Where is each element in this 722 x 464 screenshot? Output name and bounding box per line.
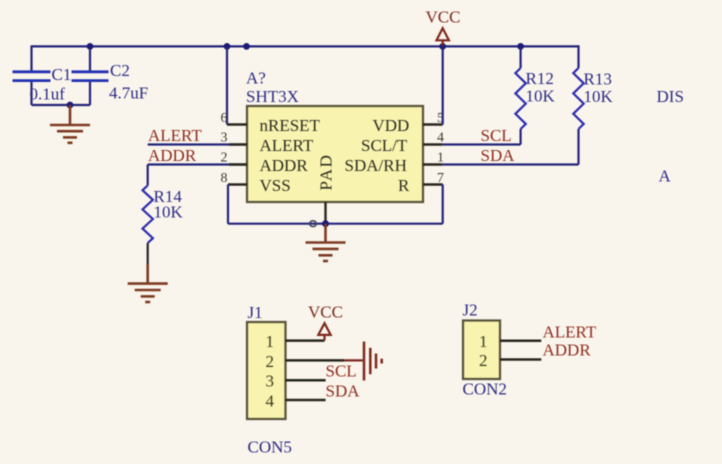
wire: rail to pin 6 [226,46,228,124]
pin name VDD [373,116,410,135]
junction dot rail/pin6 drop [224,43,231,50]
svg-text:VCC: VCC [308,303,343,322]
value 0.1uf [30,85,66,104]
pin name SCL/T [361,136,408,155]
pin 3 stub (ALERT) [229,143,247,145]
junction dot rail/VCC [439,43,446,50]
ground (below IC) [306,224,346,261]
svg-text:SDA: SDA [481,146,516,165]
svg-text:ADDR: ADDR [148,146,197,165]
pin number 1 (J2) [479,332,488,351]
power symbol VCC (top) [437,28,449,46]
pin 7 stub (R) [423,183,443,185]
capacitor C1 [13,45,51,105]
svg-text:VDD: VDD [373,116,410,135]
svg-text:SCL: SCL [481,126,512,145]
wire: ADDR net [148,163,247,165]
pin 8 stub (VSS) [228,183,247,185]
svg-text:SCL: SCL [326,362,357,381]
svg-text:A: A [659,167,672,186]
svg-text:R12: R12 [526,69,554,88]
svg-text:1: 1 [479,332,488,351]
svg-text:4: 4 [437,131,444,146]
net label ADDR [148,146,197,165]
resistor R13 [573,45,583,164]
designator SHT3X [246,87,299,106]
svg-text:SHT3X: SHT3X [246,87,299,106]
label C1 [52,65,72,84]
pin number 2 [221,151,228,166]
ground (below R14) [128,264,168,302]
svg-text:4: 4 [266,391,275,410]
connector J1 designator [248,303,263,322]
wire: VCC top rail [32,45,580,47]
pin number 6 [221,111,228,126]
capacitor C2 [72,45,109,105]
svg-text:2: 2 [479,351,488,370]
label R13 [584,70,612,89]
pin name R [398,176,410,195]
svg-text:6: 6 [221,111,228,126]
svg-text:8: 8 [221,171,228,186]
svg-text:2: 2 [266,352,275,371]
svg-text:10K: 10K [154,203,184,222]
wire: VDD to rail [442,46,444,124]
pin 5 stub (VDD) [423,123,443,125]
no-ERC marker [310,221,317,227]
pin number 3 [221,131,228,146]
wire: SDA net [443,163,579,165]
value 10K (R12) [526,87,556,106]
svg-text:7: 7 [437,171,444,186]
pin number 2 (J2) [479,351,488,370]
label R12 [526,69,554,88]
net label SCL (J1) [326,362,357,381]
svg-text:ADDR: ADDR [543,341,592,360]
svg-text:DIS: DIS [657,87,684,106]
wire: J1 pin2 to ground [286,359,363,362]
net label ALERT [148,126,202,145]
svg-text:10K: 10K [584,87,614,106]
ground (J1, rotated) [364,342,382,381]
pin name PAD (rotated) [317,154,336,191]
svg-text:CON5: CON5 [248,438,292,457]
connector J2 designator [463,301,478,320]
svg-text:VSS: VSS [260,176,291,195]
junction dot rail/R12 [517,43,524,50]
svg-text:SDA/RH: SDA/RH [345,156,407,175]
pin 6 stub (nRESET) [227,123,247,125]
svg-text:VCC: VCC [426,8,461,27]
svg-text:CON2: CON2 [463,380,507,399]
pin name VSS [260,176,291,195]
wire: J2 pin2 (ADDR) [500,358,541,361]
svg-text:ADDR: ADDR [260,156,309,175]
svg-text:A?: A? [246,69,266,88]
label C2 [110,61,130,80]
svg-text:1: 1 [437,151,444,166]
pin number 4 [437,131,444,146]
pin number 3 (J1) [266,372,275,391]
pin number 7 [437,171,444,186]
value 4.7uF [109,84,148,103]
value 10K (R14) [154,203,184,222]
net label SDA (J1) [326,382,361,401]
wire: ALERT net [148,143,247,145]
svg-text:3: 3 [221,131,228,146]
svg-text:4.7uF: 4.7uF [109,84,148,103]
wire: ground bus under IC [228,223,443,225]
wire: J1 pin3 (SCL) [286,379,326,382]
pin number 5 [437,111,444,126]
svg-text:3: 3 [266,372,275,391]
wire: J2 pin1 (ALERT) [500,340,541,343]
svg-text:ALERT: ALERT [260,136,314,155]
svg-text:ALERT: ALERT [543,323,597,342]
net label SDA [481,146,516,165]
svg-text:J1: J1 [248,303,263,322]
resistor R12 [515,46,525,144]
pin 1 stub (SDA/RH) [423,163,443,165]
ground (below C1/C2) [50,105,90,143]
svg-text:C1: C1 [52,65,72,84]
wire: J1 pin4 (SDA) [286,399,326,402]
pin name ALERT [260,136,314,155]
svg-text:nRESET: nRESET [260,116,321,135]
connector J1 type CON5 [248,438,292,457]
pin number 2 (J1) [266,352,275,371]
designator A? [246,69,266,88]
pin number 1 [437,151,444,166]
svg-text:10K: 10K [526,87,556,106]
junction dot rail (net tie) [243,43,250,50]
svg-text:PAD: PAD [317,154,336,191]
op-amp U1 : IC A? SHT3X body [247,106,423,202]
junction dot C2/rail [87,43,94,50]
net label VCC (J1) [308,303,343,322]
pin 4 stub (SCL/T) [423,143,443,145]
svg-text:2: 2 [221,151,228,166]
label R14 [154,187,183,206]
net label VCC (top) [426,8,461,27]
net label ADDR (J2) [543,341,592,360]
junction dot at capacitor ground [67,102,74,109]
resistor R14 [143,165,153,265]
net label SCL [481,126,512,145]
connector J2 type CON2 [463,380,507,399]
svg-text:R13: R13 [584,70,612,89]
net label A [659,167,672,186]
svg-text:SCL/T: SCL/T [361,136,408,155]
wire: pin7 down [442,185,444,224]
svg-text:ALERT: ALERT [148,126,202,145]
net label ALERT (J2) [543,323,597,342]
wire: capacitor bottom bus [32,104,91,106]
svg-text:SDA: SDA [326,382,361,401]
junction dot PAD/ground bus [322,220,329,227]
wire: VSS to ground bus [227,185,229,224]
pin name nRESET [260,116,321,135]
pin number 8 [221,171,228,186]
pin name ADDR [260,156,309,175]
pin number 4 (J1) [266,391,275,410]
connector J1 body [247,322,286,419]
svg-text:1: 1 [266,332,275,351]
net label DIS [657,87,684,106]
pin 2 stub (ADDR) [229,163,247,165]
value 10K (R13) [584,87,614,106]
wire: J1 pin1 to VCC [286,339,325,342]
svg-text:J2: J2 [463,301,478,320]
pin name SDA/RH [345,156,407,175]
pin PAD stub [324,202,326,224]
svg-text:0.1uf: 0.1uf [30,85,66,104]
svg-text:C2: C2 [110,61,130,80]
connector J2 body [463,321,500,380]
svg-text:R: R [398,176,410,195]
power symbol VCC (J1) [318,323,330,340]
pin number 1 (J1) [266,332,275,351]
wire: SCL net [443,143,521,145]
